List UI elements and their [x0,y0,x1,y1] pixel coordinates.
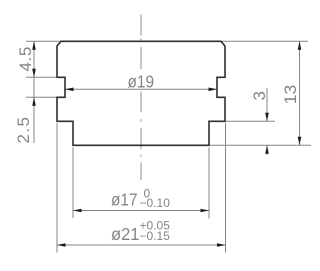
svg-text:3: 3 [250,91,269,100]
svg-text:ø21: ø21 [111,224,140,244]
svg-text:4.5: 4.5 [16,46,35,71]
svg-text:13: 13 [281,85,300,105]
svg-text:ø19: ø19 [128,72,155,92]
svg-text:−0.15: −0.15 [140,229,171,243]
svg-text:ø17: ø17 [111,190,138,210]
svg-text:2.5: 2.5 [14,116,33,144]
svg-text:−0.10: −0.10 [140,196,171,210]
